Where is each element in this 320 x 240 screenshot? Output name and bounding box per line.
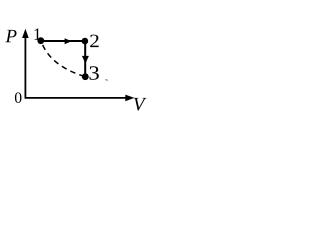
point 1 label [34, 29, 40, 40]
process line 1-2 [41, 40, 85, 42]
isotherm continuation dash past 3 [105, 79, 108, 82]
arrow on line 1-2 [65, 38, 72, 44]
point 2 dot [82, 38, 89, 45]
point 2 label [90, 35, 99, 47]
P axis label [5, 30, 16, 42]
origin label 0 [15, 92, 22, 103]
V axis label [134, 98, 147, 111]
point 3 label [89, 66, 98, 80]
point 1 dot [37, 37, 44, 44]
process line 2-3 [84, 41, 86, 74]
arrow on line 2-3 [82, 56, 89, 64]
background [0, 0, 148, 118]
isotherm dashed curve 1-3 [41, 41, 85, 77]
point 3 dot [82, 73, 89, 80]
P axis (vertical) [22, 29, 29, 99]
V axis (horizontal) [25, 95, 135, 102]
